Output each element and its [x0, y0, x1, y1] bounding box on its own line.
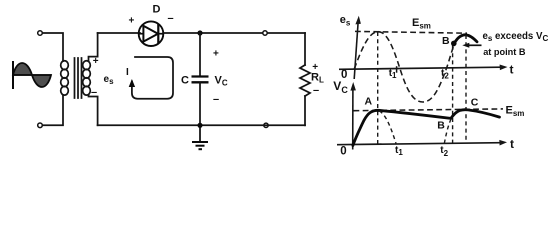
svg-text:–: –	[168, 12, 174, 24]
diode D	[139, 21, 164, 46]
svg-text:C: C	[181, 75, 189, 87]
svg-text:t1: t1	[395, 145, 403, 157]
wire: top rail capacitor node to right corner	[200, 32, 305, 34]
tick t1 (top axis)	[396, 66, 398, 73]
svg-text:t: t	[510, 63, 514, 77]
svg-text:+: +	[213, 49, 219, 60]
svg-text:VC: VC	[215, 75, 228, 88]
svg-text:es: es	[104, 74, 115, 86]
V_C waveform (bold)	[353, 110, 500, 146]
bottom graph y-axis	[350, 82, 356, 150]
e_s sine waveform (dashed)	[354, 32, 454, 102]
svg-text:–: –	[313, 84, 319, 96]
svg-text:+: +	[129, 16, 135, 27]
svg-text:+: +	[93, 56, 99, 67]
svg-text:es: es	[340, 14, 351, 28]
wire: secondary bottom to bottom rail	[89, 95, 98, 125]
annotation arrow (points to B region)	[462, 43, 481, 48]
E_sm level line (bottom graph)	[354, 109, 504, 111]
wire: resistor to bottom rail	[304, 96, 306, 125]
svg-text:D: D	[153, 4, 161, 16]
wire: capacitor bottom lead	[199, 82, 201, 125]
svg-text:–: –	[91, 87, 97, 99]
wire: diode to capacitor node	[163, 32, 200, 34]
dashed sine tail after A (pulse 1 falling)	[379, 111, 396, 144]
wire: top rail secondary to diode	[98, 32, 140, 34]
ground	[192, 125, 208, 149]
input terminal (bottom)	[38, 123, 43, 128]
resistor R_L	[300, 65, 310, 96]
svg-text:RL: RL	[311, 72, 324, 85]
vertical dashed line at point B time	[452, 46, 454, 144]
svg-text:Esm: Esm	[506, 105, 525, 119]
svg-text:C: C	[471, 97, 479, 109]
svg-text:at point B: at point B	[483, 47, 526, 57]
svg-text:B: B	[442, 35, 450, 47]
top graph x-axis	[339, 65, 508, 71]
output terminal (top rail)	[263, 31, 267, 35]
top graph y-axis	[354, 16, 361, 79]
junction node (top of C)	[197, 30, 202, 35]
svg-text:A: A	[365, 95, 373, 107]
capacitor C	[192, 77, 209, 83]
E_sm level line (top graph)	[355, 31, 467, 33]
svg-text:0: 0	[340, 145, 346, 157]
transformer primary winding	[61, 61, 69, 95]
svg-text:B: B	[437, 119, 445, 131]
vertical dashed line at first peak	[377, 32, 379, 144]
current loop I	[129, 57, 173, 99]
svg-text:VC: VC	[333, 79, 348, 95]
svg-text:0: 0	[341, 69, 347, 81]
svg-text:Esm: Esm	[412, 17, 431, 31]
transformer core	[75, 58, 82, 98]
output terminal (bottom rail)	[264, 123, 268, 127]
vertical dashed line at second peak	[465, 35, 467, 144]
ac source	[13, 61, 51, 89]
svg-text:t2: t2	[440, 145, 448, 158]
svg-text:–: –	[213, 93, 219, 105]
wire: top terminal to primary	[43, 33, 64, 61]
svg-text:t1: t1	[389, 68, 397, 80]
wire: secondary top to top rail	[89, 33, 98, 61]
wire: right side down to resistor	[304, 33, 306, 65]
bottom graph x-axis	[337, 140, 507, 146]
input terminal (top)	[38, 31, 43, 36]
svg-text:es exceeds VC: es exceeds VC	[483, 31, 549, 43]
svg-text:I: I	[126, 67, 129, 78]
wire: bottom rail	[98, 124, 305, 126]
junction node (bottom of C)	[197, 123, 202, 128]
wire: capacitor top lead	[199, 33, 201, 76]
svg-text:t: t	[510, 137, 514, 151]
transformer secondary winding	[83, 61, 91, 95]
e_s waveform solid portion near B	[453, 35, 477, 45]
dashed sine rise before B (pulse 2 rising)	[444, 119, 451, 144]
wire: bottom terminal to primary	[43, 95, 64, 125]
point B dot (top graph)	[451, 41, 457, 47]
